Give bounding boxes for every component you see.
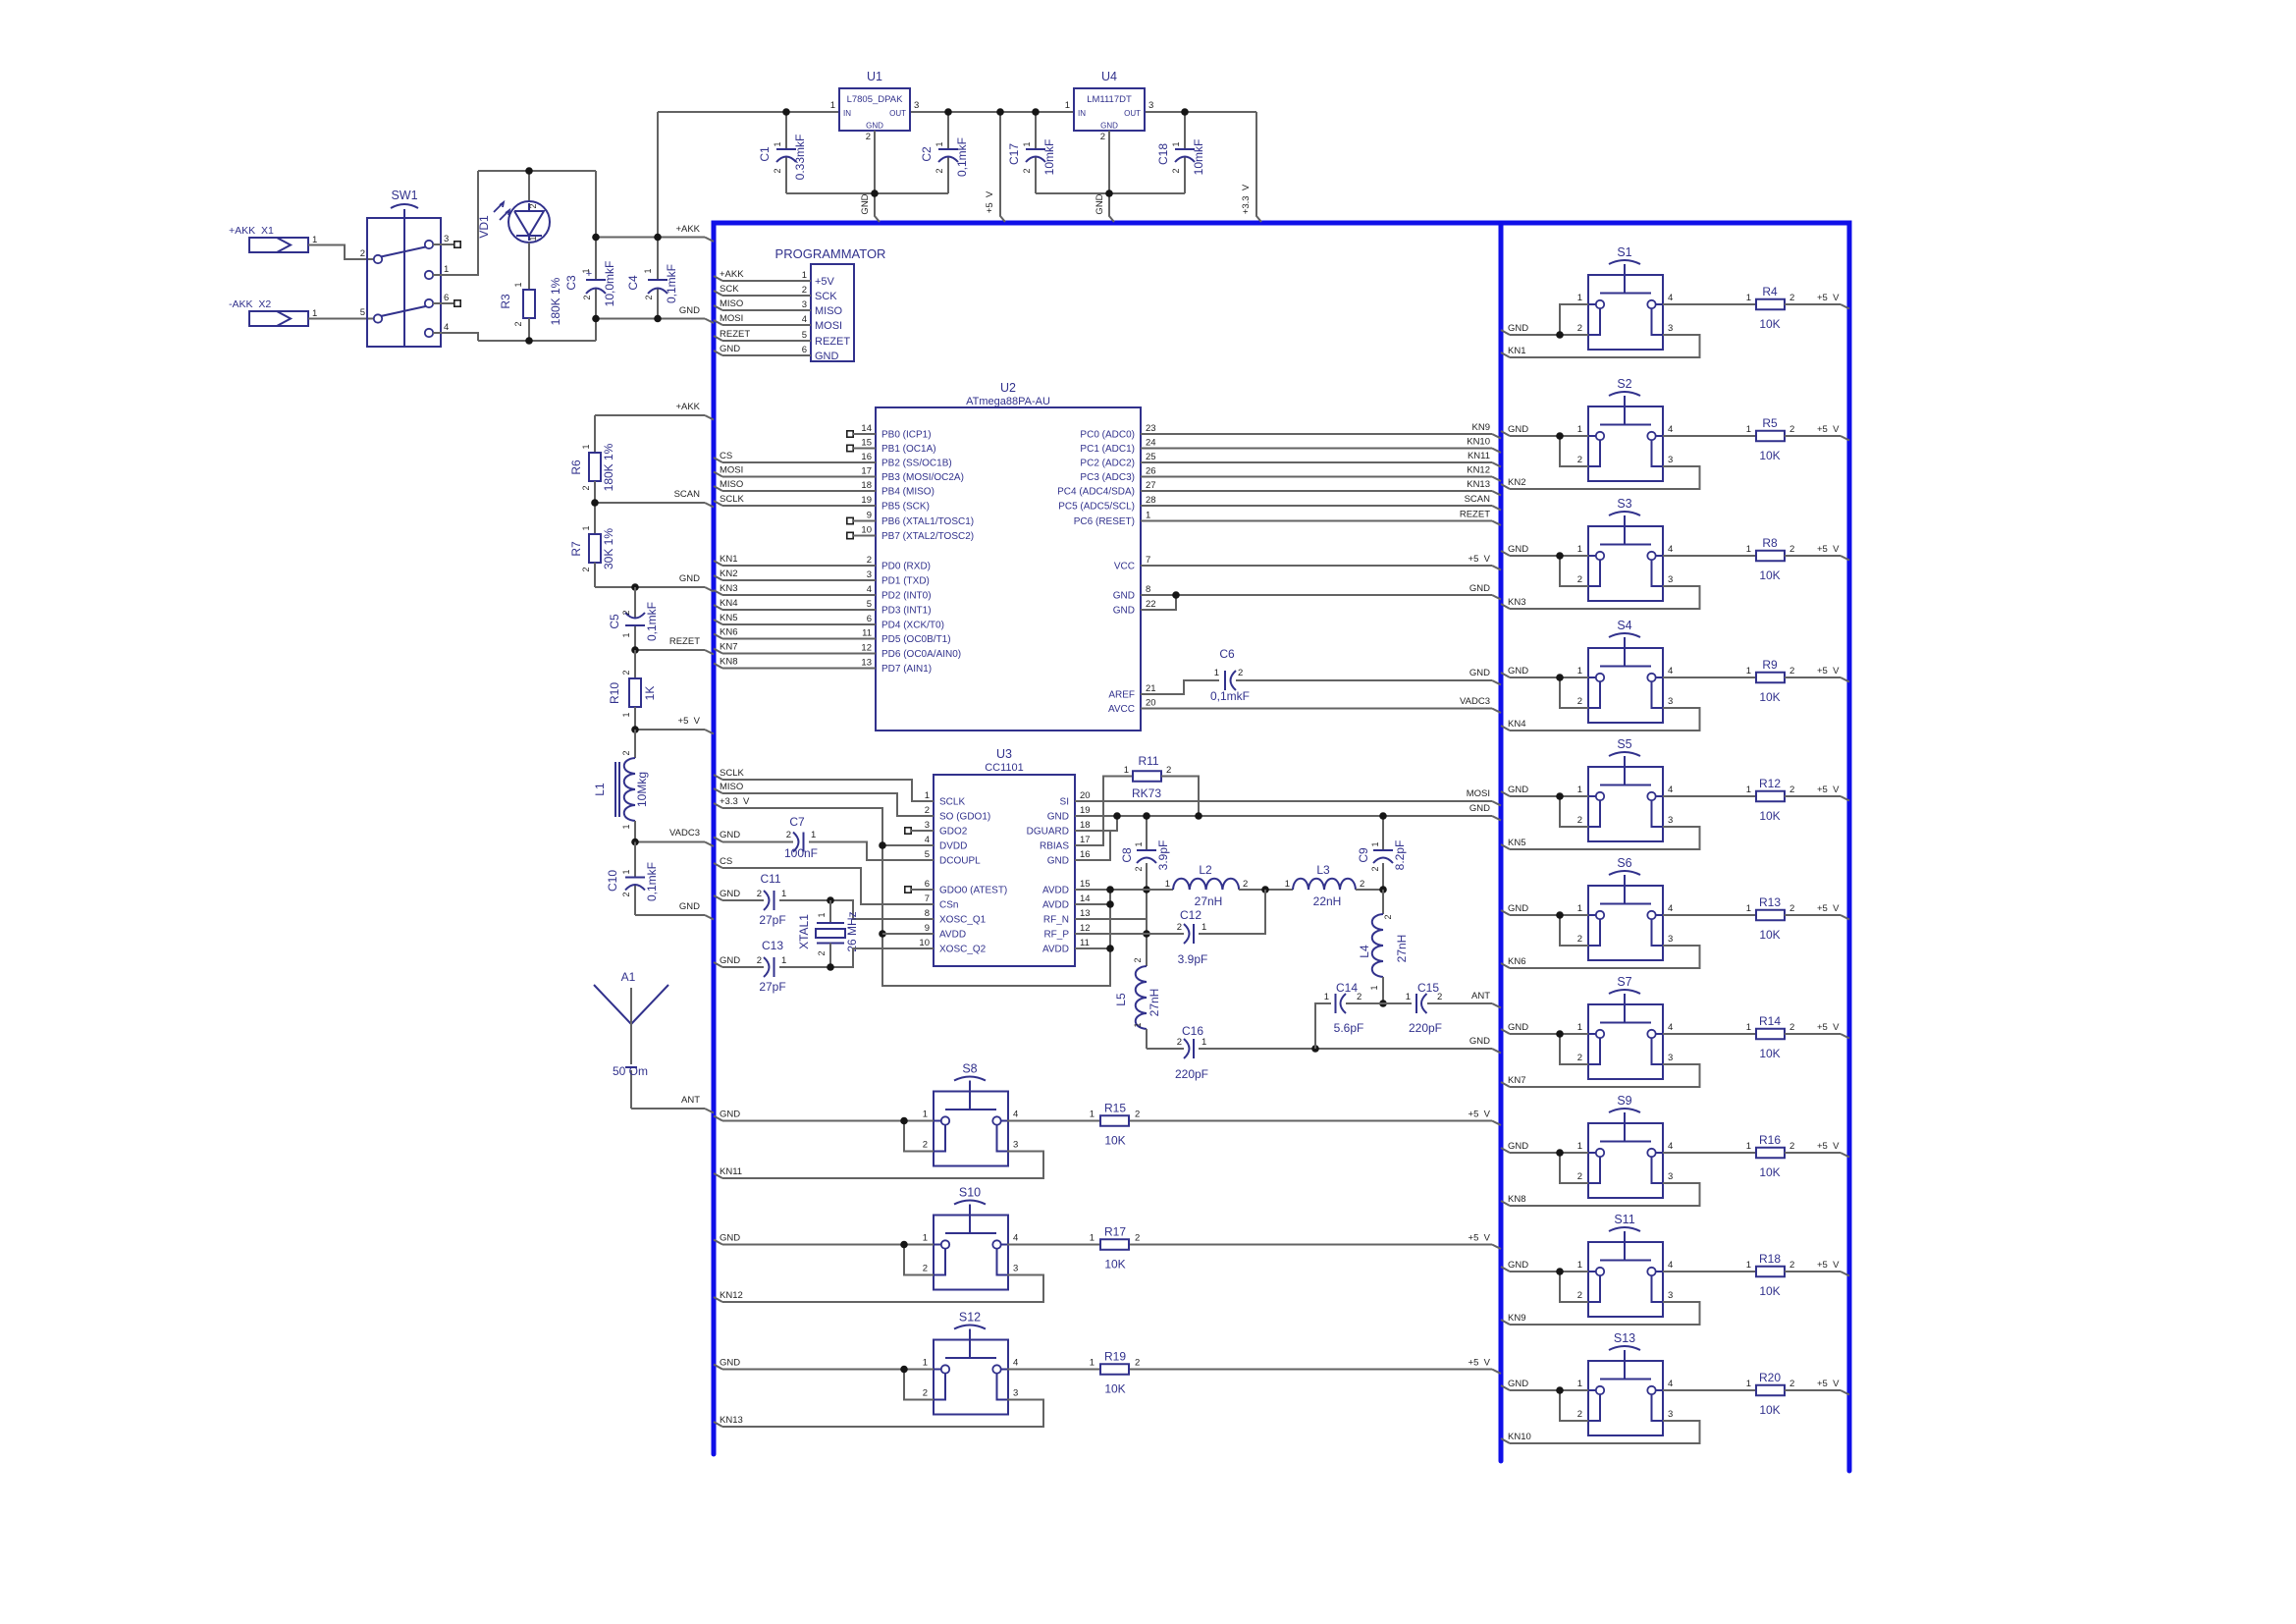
svg-text:DCOUPL: DCOUPL [939,856,981,867]
wire S4 pin3 to KN4 [1510,708,1700,731]
svg-text:30K 1%: 30K 1% [602,528,615,569]
svg-text:3: 3 [914,100,919,111]
junction [1556,432,1564,440]
wire R8 to +5V [1785,555,1841,557]
wire VD1 to R3 [528,243,530,290]
svg-text:1: 1 [1577,544,1582,555]
svg-text:1: 1 [1577,1379,1582,1389]
svg-text:3: 3 [1668,696,1673,707]
wire net KN6 to U2 [714,634,722,639]
svg-text:1: 1 [581,444,591,449]
wire R12 to +5V [1785,795,1841,797]
resistor R6 [589,453,601,481]
capacitor C13 [714,962,722,967]
svg-text:C13: C13 [762,939,783,952]
wire net KN5 to U2 [714,620,722,624]
svg-text:19: 19 [861,495,872,506]
svg-text:PB4 (MISO): PB4 (MISO) [881,487,934,498]
svg-text:KN2: KN2 [720,568,737,579]
svg-text:4: 4 [1668,424,1673,435]
wire SI net MOSI [1075,800,1492,802]
svg-text:2: 2 [1577,1409,1582,1420]
pin 21 AREF with capacitor C6 [1141,680,1219,694]
svg-text:5: 5 [925,849,930,860]
svg-text:+5 V: +5 V [1817,544,1840,555]
svg-text:2: 2 [1789,1141,1794,1152]
svg-text:GND: GND [1047,812,1069,823]
pin 27 PC4 (ADC4/SDA) net KN13 [1141,490,1492,492]
svg-text:26: 26 [1146,466,1156,477]
svg-text:L2: L2 [1199,863,1212,877]
svg-text:7: 7 [1146,555,1150,566]
svg-text:GND: GND [860,193,871,214]
svg-text:14: 14 [861,423,872,434]
svg-text:R14: R14 [1759,1014,1781,1028]
junction REZET [631,646,639,654]
regulator U1 [839,88,910,131]
svg-text:R17: R17 [1104,1225,1126,1239]
svg-text:R9: R9 [1762,658,1778,672]
svg-text:R3: R3 [499,294,512,309]
resistor R9 [1756,673,1785,683]
inductor L4 [1382,890,1384,914]
svg-text:OUT: OUT [889,109,906,118]
capacitor C9 [1382,816,1384,850]
svg-text:AVDD: AVDD [1042,886,1069,896]
svg-text:1: 1 [1124,765,1129,776]
svg-text:+5 V: +5 V [1817,293,1840,303]
capacitor C14 [1335,994,1337,1013]
svg-text:10K: 10K [1759,1165,1780,1179]
svg-text:R11: R11 [1138,754,1158,768]
svg-text:1: 1 [923,1358,928,1369]
wire X2 to SW1 [308,318,374,320]
svg-text:C18: C18 [1156,143,1170,165]
wire PROGRAMMATOR pin 4 [714,320,722,325]
svg-text:20: 20 [1080,790,1091,801]
svg-text:PD4 (XCK/T0): PD4 (XCK/T0) [881,621,944,631]
svg-text:S12: S12 [959,1311,981,1325]
wire L2-L3 [1239,889,1293,891]
wire S3 pin3 to KN3 [1510,586,1700,609]
svg-text:MISO: MISO [720,479,743,490]
svg-text:0.33mkF: 0.33mkF [793,135,807,181]
svg-text:2: 2 [621,670,631,675]
svg-text:XOSC_Q1: XOSC_Q1 [939,915,987,926]
svg-text:+5 V: +5 V [678,716,701,727]
svg-text:REZET: REZET [720,329,750,340]
wire +5V row left [635,729,705,731]
svg-text:4: 4 [1668,785,1673,795]
wire R16 to +5V [1785,1152,1841,1154]
junction GND22 [1172,591,1180,599]
svg-text:ATmega88PA-AU: ATmega88PA-AU [966,396,1050,407]
button S11 [1588,1242,1663,1317]
svg-text:0,1mkF: 0,1mkF [645,602,659,641]
svg-text:KN2: KN2 [1508,477,1525,488]
wire GND to S6 [1501,910,1510,915]
svg-text:25: 25 [1146,452,1156,462]
junction [1105,189,1113,197]
svg-text:1: 1 [513,282,523,287]
wire top rail left [658,111,839,113]
svg-text:S9: S9 [1617,1094,1631,1108]
svg-text:MISO: MISO [720,782,743,792]
wire R3 down [528,318,530,341]
junction GND C5 [631,583,639,591]
svg-text:-AKK X2: -AKK X2 [229,298,271,310]
svg-text:AVDD: AVDD [1042,945,1069,955]
svg-text:1: 1 [581,525,591,530]
svg-text:4: 4 [802,314,807,325]
svg-text:L4: L4 [1358,945,1371,958]
junction [996,108,1004,116]
wire R14 to +5V [1785,1033,1841,1035]
wire C5-R10 [634,650,636,678]
svg-text:1: 1 [1285,879,1290,890]
svg-text:10K: 10K [1759,1403,1780,1417]
svg-text:2: 2 [1577,815,1582,826]
svg-text:3: 3 [867,569,872,580]
svg-text:3: 3 [1013,1140,1018,1151]
svg-text:3: 3 [1668,1053,1673,1063]
svg-text:PB6 (XTAL1/TOSC1): PB6 (XTAL1/TOSC1) [881,516,974,527]
svg-text:2: 2 [867,555,872,566]
svg-text:2: 2 [513,321,523,326]
svg-text:S7: S7 [1617,975,1631,989]
svg-text:2: 2 [1100,132,1105,142]
svg-text:9: 9 [867,511,872,521]
wire GND to S7 [1501,1029,1510,1034]
svg-text:VCC: VCC [1114,562,1135,572]
svg-text:22nH: 22nH [1313,894,1342,908]
wire AVDD15 to L2 [1075,889,1173,891]
svg-text:AVDD: AVDD [1042,900,1069,911]
wire GND to S10 [714,1240,722,1245]
button S13 [1588,1361,1663,1435]
svg-text:SCLK: SCLK [939,797,965,808]
resistor R11 [1075,777,1133,846]
junction C8 top [1143,812,1150,820]
svg-text:8: 8 [925,908,930,919]
svg-text:KN9: KN9 [1472,422,1490,433]
svg-text:2: 2 [1166,765,1171,776]
svg-text:1: 1 [621,712,631,717]
svg-text:2: 2 [1133,957,1143,962]
svg-text:GND: GND [679,573,700,584]
svg-text:KN5: KN5 [720,613,737,623]
wire S2 pin4 to R5 [1663,435,1756,437]
svg-text:S8: S8 [962,1062,977,1076]
junction [654,315,662,323]
svg-text:1: 1 [528,236,538,241]
svg-text:PD1 (TXD): PD1 (TXD) [881,576,930,587]
inductor L1 [634,730,636,758]
resistor R4 [1756,299,1785,310]
svg-text:3: 3 [802,299,807,310]
junction [782,108,790,116]
svg-text:MOSI: MOSI [720,313,743,324]
svg-text:16: 16 [1080,849,1091,860]
wire R7 down [594,563,596,587]
svg-text:1: 1 [1577,666,1582,677]
pin 15 PB1 (OC1A) [847,445,853,451]
button S6 [1588,886,1663,960]
wire S8 pin4 to R15 [1007,1120,1100,1122]
svg-text:GND: GND [720,889,740,899]
svg-text:8.2pF: 8.2pF [1393,840,1407,871]
svg-text:1: 1 [1090,1233,1095,1244]
svg-text:R5: R5 [1762,416,1778,430]
svg-text:GND: GND [1508,544,1528,555]
svg-text:R19: R19 [1104,1350,1126,1364]
svg-text:2: 2 [923,1264,928,1274]
svg-text:1: 1 [781,955,786,966]
junction L2 L3 C12 [1261,886,1269,893]
svg-text:2: 2 [1177,922,1182,933]
svg-text:4: 4 [1668,666,1673,677]
svg-text:18: 18 [1080,820,1091,831]
IC U2 ATmega88PA-AU [876,407,1141,731]
svg-text:KN11: KN11 [1468,451,1490,461]
resistor R20 [1756,1385,1785,1396]
IC U3 CC1101 [934,775,1075,966]
junction [1556,1030,1564,1038]
switch SW1 [367,218,441,347]
svg-text:XTAL1: XTAL1 [797,914,811,949]
svg-text:4: 4 [444,322,449,333]
wire PROGRAMMATOR pin 3 [714,305,722,310]
svg-text:10K: 10K [1759,568,1780,582]
svg-text:2: 2 [1789,1379,1794,1389]
pin 14 PB0 (ICP1) [847,431,853,437]
svg-text:PROGRAMMATOR: PROGRAMMATOR [775,246,886,261]
svg-text:1: 1 [621,632,631,637]
button S1 [1588,275,1663,350]
wire GND to S3 [1501,551,1510,556]
svg-text:+5 V: +5 V [1817,1260,1840,1271]
svg-text:3: 3 [1668,574,1673,585]
svg-text:+5 V: +5 V [1817,785,1840,795]
svg-text:R12: R12 [1759,777,1781,790]
svg-text:CC1101: CC1101 [985,762,1024,774]
svg-text:GND: GND [720,830,740,840]
svg-text:27pF: 27pF [759,980,785,994]
svg-text:220pF: 220pF [1175,1067,1208,1081]
svg-text:OUT: OUT [1124,109,1141,118]
svg-text:27nH: 27nH [1148,989,1161,1017]
svg-text:17: 17 [861,466,872,477]
svg-text:KN10: KN10 [1508,1432,1531,1442]
svg-text:KN6: KN6 [1508,956,1525,967]
svg-text:+5 V: +5 V [1817,666,1840,677]
wire GND to S2 [1501,431,1510,436]
junction AVDD9 [879,930,886,938]
junction [1556,674,1564,681]
wire +AKK R6 row [595,414,705,416]
wire +AKK row [596,237,705,239]
resistor R12 [1756,791,1785,802]
svg-text:R15: R15 [1104,1102,1126,1115]
wire L1 down [634,821,636,842]
resistor R15 [1100,1115,1129,1126]
svg-text:R7: R7 [569,541,583,557]
svg-text:2: 2 [1789,785,1794,795]
svg-text:16: 16 [861,452,872,462]
svg-text:4: 4 [1668,293,1673,303]
svg-text:+AKK: +AKK [675,402,700,412]
svg-text:10mkF: 10mkF [1042,139,1056,176]
svg-text:9: 9 [925,923,930,934]
svg-text:10: 10 [919,938,930,948]
svg-text:10K: 10K [1759,449,1780,462]
svg-text:C14: C14 [1336,981,1358,995]
svg-text:C3: C3 [564,275,578,291]
wire R6 top [594,415,596,453]
svg-text:22: 22 [1146,599,1156,610]
svg-text:13: 13 [861,658,872,669]
svg-text:2: 2 [934,168,944,173]
svg-text:PC4 (ADC4/SDA): PC4 (ADC4/SDA) [1057,487,1135,498]
svg-text:1: 1 [830,100,835,111]
svg-text:RBIAS: RBIAS [1040,841,1069,852]
svg-text:R16: R16 [1759,1133,1781,1147]
wire top rail middle [910,111,1074,113]
svg-text:3: 3 [444,234,449,244]
svg-text:5.6pF: 5.6pF [1334,1021,1364,1035]
svg-text:GND: GND [1100,122,1118,131]
svg-text:2: 2 [1789,424,1794,435]
svg-text:3: 3 [1668,1171,1673,1182]
svg-text:2: 2 [1577,1171,1582,1182]
svg-text:1: 1 [1369,985,1379,990]
bus line left border [712,223,717,1454]
junction [1556,792,1564,800]
wire S12 pin4 to R19 [1007,1369,1100,1371]
svg-text:2: 2 [1238,668,1243,678]
svg-text:20: 20 [1146,698,1156,709]
svg-text:2: 2 [786,830,791,840]
svg-text:PC5 (ADC5/SCL): PC5 (ADC5/SCL) [1058,502,1135,513]
svg-text:GND: GND [720,1110,740,1120]
svg-text:23: 23 [1146,423,1156,434]
svg-text:3: 3 [1668,323,1673,334]
wire R10 down [634,707,636,730]
svg-text:L7805_DPAK: L7805_DPAK [847,94,904,105]
svg-text:IN: IN [1078,109,1086,118]
resistor R17 [1100,1239,1129,1250]
svg-text:KN6: KN6 [720,627,737,638]
svg-text:27: 27 [1146,480,1156,491]
wire R4 to +5V [1785,303,1841,305]
svg-text:MOSI: MOSI [1467,788,1490,799]
wire GND to S1 [1501,330,1510,335]
svg-text:KN13: KN13 [1467,479,1490,490]
wire AVDD14 stub [1075,903,1110,905]
wire GND to S5 [1501,791,1510,796]
wire S11 pin3 to KN9 [1510,1302,1700,1325]
svg-text:3: 3 [1013,1388,1018,1399]
svg-text:PB5 (SCK): PB5 (SCK) [881,502,930,513]
svg-text:R10: R10 [608,682,621,704]
wire U1 gnd pin2 [874,131,876,193]
svg-text:220pF: 220pF [1409,1021,1442,1035]
svg-text:PB0 (ICP1): PB0 (ICP1) [881,430,932,441]
junction RF_P L5 [1143,930,1150,938]
svg-text:MOSI: MOSI [720,465,743,476]
wire U4 gnd pin2 [1108,131,1110,193]
button S10 [934,1216,1008,1290]
svg-text:2: 2 [1789,903,1794,914]
svg-text:GDO0 (ATEST): GDO0 (ATEST) [939,886,1007,896]
bus line top border [712,221,1852,226]
svg-text:A1: A1 [621,970,636,984]
svg-text:PB1 (OC1A): PB1 (OC1A) [881,444,936,455]
wire R15 to +5V [1130,1120,1492,1122]
svg-text:PD3 (INT1): PD3 (INT1) [881,606,932,617]
resistor R18 [1756,1267,1785,1277]
wire GND to S13 [1501,1385,1510,1390]
junction [1032,108,1040,116]
wire R13 to +5V [1785,914,1841,916]
svg-text:1: 1 [925,790,930,801]
wire net KN1 to U2 [714,561,722,566]
svg-text:+5 V: +5 V [1468,1358,1491,1369]
svg-text:2: 2 [1370,866,1380,871]
svg-text:1: 1 [1746,1141,1751,1152]
junction VADC3 [631,839,639,846]
svg-text:GND: GND [720,955,740,966]
svg-text:2: 2 [1577,455,1582,465]
svg-text:C11: C11 [760,872,780,886]
wire net MISO to U3 [714,788,722,793]
svg-text:2: 2 [1135,1110,1140,1120]
svg-text:R18: R18 [1759,1252,1781,1266]
svg-text:1: 1 [1746,666,1751,677]
junction C8 AVDD15 [1143,886,1150,893]
svg-text:S11: S11 [1614,1213,1634,1226]
svg-text:U2: U2 [1000,381,1016,395]
svg-text:R13: R13 [1759,895,1781,909]
svg-text:+3.3 V: +3.3 V [1241,184,1252,214]
LED VD1 [528,171,530,201]
junction [871,189,879,197]
svg-text:1: 1 [781,889,786,899]
svg-text:21: 21 [1146,683,1156,694]
pin 23 PC0 (ADC0) net KN9 [1141,433,1492,435]
svg-text:S5: S5 [1617,737,1631,751]
svg-text:AREF: AREF [1108,690,1135,701]
svg-text:KN5: KN5 [1508,838,1525,848]
svg-text:CSn: CSn [939,900,958,911]
capacitor C1 [785,112,787,149]
svg-text:+5V: +5V [815,276,835,288]
svg-text:27nH: 27nH [1395,935,1409,963]
svg-text:VADC3: VADC3 [669,828,700,839]
svg-text:1: 1 [1370,841,1380,846]
svg-text:27pF: 27pF [759,913,785,927]
capacitor C12 on RF_P [1075,933,1184,935]
svg-text:2: 2 [866,132,871,142]
svg-text:U1: U1 [867,70,882,83]
svg-text:GND: GND [1508,1260,1528,1271]
svg-text:18: 18 [861,480,872,491]
svg-text:1: 1 [1090,1358,1095,1369]
wire R20 to +5V [1785,1389,1841,1391]
svg-text:PC0 (ADC0): PC0 (ADC0) [1080,430,1135,441]
capacitor C11 [714,895,722,900]
svg-text:+5 V: +5 V [1817,424,1840,435]
